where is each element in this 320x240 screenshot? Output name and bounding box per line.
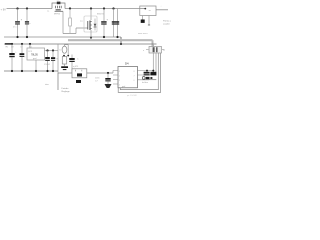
resistor R1 — [69, 9, 71, 34]
diode D1 on T1 loop — [57, 2, 61, 5]
pin K1 a — [142, 16, 144, 20]
node R1 top — [69, 7, 71, 9]
svg-text:47u: 47u — [13, 27, 16, 29]
node cluster a — [146, 70, 148, 72]
node C6 top — [112, 7, 114, 9]
svg-text:100n: 100n — [95, 78, 99, 80]
node rail C C9 — [21, 70, 23, 72]
svg-text:n: n — [30, 23, 31, 25]
transistor T1 body loop — [52, 3, 65, 9]
node C4 top — [52, 49, 54, 51]
svg-text:8: 8 — [134, 71, 135, 73]
node C3 top — [46, 49, 48, 51]
IC U1 — [118, 67, 138, 88]
node C2 top — [26, 7, 28, 9]
diode D6 — [146, 77, 150, 79]
svg-text:+: + — [161, 6, 162, 8]
pin stubs right — [137, 71, 153, 80]
capacitor C6 — [113, 9, 115, 38]
node rail C C4 — [52, 70, 54, 72]
capacitor C2 — [26, 9, 28, 22]
svg-text:Points a: Points a — [163, 20, 172, 23]
node rail C C3 — [46, 70, 48, 72]
node cluster b — [152, 70, 154, 72]
component X1 blob — [150, 72, 156, 76]
node rail A C2 — [26, 36, 28, 38]
node rail B C4 — [21, 43, 23, 45]
node C5 top — [103, 7, 105, 9]
node rail B C3 — [11, 43, 13, 45]
node rail A C5 — [103, 36, 105, 38]
trimmer wiper blob — [76, 80, 81, 83]
svg-text:Reglage: Reglage — [62, 91, 71, 93]
svg-text:78L05: 78L05 — [31, 54, 38, 57]
node T2 drain — [90, 7, 92, 9]
wire top rail right of T1 — [65, 8, 140, 10]
wire gate link horizontal — [63, 33, 76, 35]
node rail B IC1 — [29, 43, 31, 45]
zener D2 — [94, 19, 96, 31]
svg-text:Futaba: Futaba — [62, 87, 70, 90]
wire rail C (0V mid) — [4, 70, 58, 72]
wire IC1 out — [45, 50, 59, 52]
transistor T2 — [90, 9, 92, 21]
wire gate link up — [75, 28, 77, 34]
svg-text:vers accu: vers accu — [138, 32, 148, 35]
wire T2 gate lead — [76, 27, 88, 29]
pin stubs left — [113, 71, 118, 85]
resistor R5 — [150, 77, 152, 79]
LED D5 — [142, 77, 145, 80]
wire +5V to logic — [58, 72, 113, 74]
svg-text:6: 6 — [134, 80, 135, 82]
svg-text:3: 3 — [119, 80, 120, 82]
svg-text:7: 7 — [134, 76, 135, 78]
node rail A C6 — [116, 36, 118, 38]
wire rail A to rail B — [120, 37, 122, 44]
LED D3 chain — [64, 44, 66, 46]
ground LED — [61, 66, 68, 68]
transistor T1 gate bar — [55, 10, 63, 12]
svg-text:2: 2 — [119, 76, 120, 78]
regulator IC1 — [29, 44, 31, 48]
wire top rail — [7, 8, 53, 10]
wire cluster bottom — [142, 79, 156, 81]
wire jack down 2 — [155, 53, 157, 72]
svg-text:gnd: gnd — [122, 86, 125, 88]
node C1 top — [16, 7, 18, 9]
svg-text:aj 473: aj 473 — [73, 66, 78, 68]
wire +5V vertical — [57, 44, 59, 73]
jack J1 — [149, 47, 162, 54]
wire jack down 1 — [152, 53, 154, 71]
capacitor C8 — [11, 44, 13, 53]
capacitor C7 — [107, 73, 109, 78]
svg-text:pic 12c508: pic 12c508 — [127, 95, 138, 97]
node rail B link — [120, 43, 122, 45]
transistor T1 symbol — [56, 6, 62, 9]
svg-text:1: 1 — [119, 71, 120, 73]
node rail C C8 — [11, 70, 13, 72]
ground C7 — [105, 84, 112, 88]
svg-text:D4: D4 — [125, 61, 129, 65]
wire gray power band — [68, 39, 153, 41]
svg-text:C3 C4: C3 C4 — [44, 64, 51, 66]
wire loop outer — [118, 53, 160, 92]
capacitor C4 — [52, 51, 54, 58]
node T2 source — [90, 36, 92, 38]
capacitor C10 — [71, 55, 73, 59]
capacitor C11 — [146, 71, 148, 72]
label vers inter — [57, 73, 59, 90]
node rail C gnd IC1 — [35, 70, 37, 72]
capacitor C9 — [21, 44, 23, 53]
svg-text:inter: inter — [45, 83, 49, 86]
connector K1 — [140, 6, 156, 16]
svg-text:BS170: BS170 — [97, 14, 104, 16]
svg-text:IRF9Z: IRF9Z — [54, 14, 61, 16]
pin K1 b — [148, 16, 150, 26]
wire T1 gate down — [62, 11, 64, 33]
svg-text:4: 4 — [119, 85, 120, 87]
capacitor C3 — [47, 51, 49, 58]
label 0V — [5, 43, 11, 45]
node rail A C1 — [16, 36, 18, 38]
wire rail B — [4, 43, 157, 45]
svg-text:led buz: led buz — [142, 82, 148, 84]
wire jack drop gray — [153, 44, 155, 47]
capacitor C1 — [17, 9, 19, 22]
svg-text:souder: souder — [163, 23, 170, 26]
node C7 — [107, 72, 109, 74]
wire rail A (0V top section) — [4, 36, 121, 38]
capacitor C5 — [103, 9, 105, 22]
svg-text:gnd: gnd — [33, 58, 36, 60]
wire IC1 gnd — [35, 60, 37, 71]
svg-text:n: n — [25, 57, 26, 59]
resistor R2 — [62, 57, 66, 65]
wire loop inner — [120, 53, 158, 90]
svg-text:+ 9V: + 9V — [1, 8, 7, 12]
wire K1 right — [156, 9, 168, 11]
